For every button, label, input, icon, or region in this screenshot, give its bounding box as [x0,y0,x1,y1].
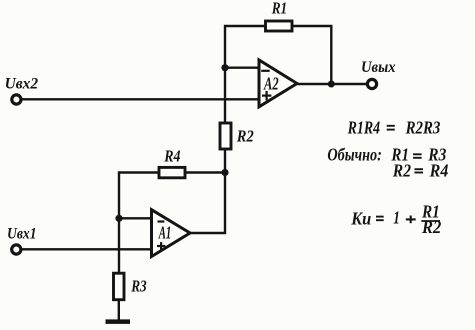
resistor R4 [159,146,185,177]
formula R1R4 = R2R3 [347,118,441,138]
op-amp A2 [259,60,297,107]
wire R4 left to node N3 [119,173,160,219]
node N2 [221,169,228,176]
wire feedback-loop A2 right vertical [291,26,331,84]
svg-text:A1: A1 [158,223,171,243]
wire R2 to node N2 [224,149,226,173]
resistor R3 [114,273,148,300]
svg-text:Uвх1: Uвх1 [7,226,37,243]
svg-text:R4: R4 [163,146,180,165]
wire node N3 to R3 [118,218,120,273]
svg-text:R1: R1 [271,0,287,17]
svg-text:Uвх2: Uвх2 [5,76,39,93]
node N3 [115,215,122,222]
formula R2 = R4 [392,161,449,181]
svg-text:Uвых: Uвых [361,59,396,76]
formula Ku = 1 + R1/R2 [350,202,441,238]
wire node N1 to R2 [224,68,226,123]
wire node N3 to A1 inverting input [119,217,152,219]
wire output node to terminal [331,83,366,85]
svg-text:R4: R4 [429,161,449,181]
svg-text:R3: R3 [130,277,147,296]
svg-text:A2: A2 [263,73,278,93]
wire node N1 to A2 inverting input [225,66,260,68]
wire A2 output [297,83,331,85]
svg-text:R1R4: R1R4 [347,118,380,138]
svg-text:R2R3: R2R3 [405,118,441,138]
svg-text:R2: R2 [392,161,411,181]
formula Obychno R1 = R3 [327,145,446,165]
svg-text:R2: R2 [421,217,441,237]
resistor R1 [266,0,293,31]
terminal Uvyh [361,59,396,89]
wire Uvh1 to A1 noninverting input [22,248,152,250]
wire feedback-loop A2 left vertical [225,26,266,68]
wire R4 right to node N2 [185,171,225,173]
node N1 [221,64,228,71]
wire R3 to ground [118,300,120,321]
svg-text:R2: R2 [236,127,254,146]
terminal Uvh2 [5,76,39,105]
svg-text:Обычно:: Обычно: [327,145,382,165]
wire A1 output to node N2 [190,173,225,234]
terminal Uvh1 [7,226,37,255]
wire Uvh2 to A2 noninverting input [22,98,260,100]
ground [106,319,131,324]
node A2 output junction [328,81,335,88]
resistor R2 [220,123,254,149]
op-amp A1 [152,210,191,257]
svg-text:1: 1 [393,208,400,228]
svg-text:Ku: Ku [350,208,371,228]
